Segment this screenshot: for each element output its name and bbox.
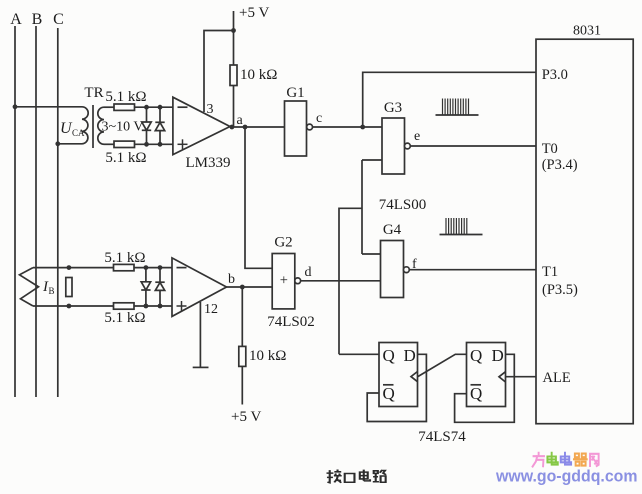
svg-text:d: d — [305, 265, 312, 280]
wire f: G4 output to T1 — [409, 257, 536, 272]
wire ALE to FF2 clock — [506, 376, 537, 378]
svg-text:10 kΩ: 10 kΩ — [240, 67, 277, 83]
label U_CA — [60, 120, 85, 138]
wire R7 to +5V — [241, 366, 243, 404]
svg-text:LM339: LM339 — [186, 155, 231, 171]
svg-text:10 kΩ: 10 kΩ — [249, 348, 286, 364]
gate G1 — [285, 85, 313, 156]
phase line A — [10, 11, 22, 397]
svg-text:CA: CA — [72, 128, 85, 138]
wire c: G1 output to junction — [313, 111, 366, 129]
gate G2 — [272, 235, 300, 309]
svg-text:5.1 kΩ: 5.1 kΩ — [104, 310, 145, 326]
wire node a down to G2 input — [245, 127, 272, 268]
svg-text:B: B — [49, 286, 55, 296]
wire node b to G2 — [227, 286, 273, 288]
svg-text:G4: G4 — [383, 222, 402, 238]
ground — [193, 366, 209, 368]
wire C to TR primary bottom — [58, 143, 82, 145]
wire R2 to comparator plus input — [135, 143, 173, 145]
svg-text:Q: Q — [383, 384, 395, 403]
svg-text:G3: G3 — [384, 100, 402, 116]
junction dots upper clamp rails — [144, 105, 162, 147]
svg-text:P3.0: P3.0 — [542, 67, 568, 83]
wire FF1 Q output up to gating branch — [339, 353, 379, 355]
diode D3 (cathode down) — [141, 268, 150, 306]
diode D2 (cathode up) — [155, 107, 164, 144]
wire FF2 Qbar to D feedback loop — [455, 354, 515, 422]
svg-text:TR: TR — [84, 85, 103, 101]
pin 3 wire (U1 power) — [204, 31, 234, 118]
svg-text:3~10 V: 3~10 V — [102, 120, 144, 135]
svg-text:T0: T0 — [542, 141, 558, 157]
phase line C — [53, 11, 64, 397]
diode D4 (cathode up) — [155, 268, 164, 306]
svg-text:74LS74: 74LS74 — [418, 429, 466, 445]
pulse train icon near G4 — [440, 218, 483, 235]
svg-text:(P3.5): (P3.5) — [542, 282, 578, 298]
pin 12 wire (U2 ground) — [200, 302, 218, 367]
svg-text:3: 3 — [207, 102, 214, 117]
svg-text:Q: Q — [470, 346, 482, 365]
svg-text:c: c — [316, 111, 322, 126]
wire R3 to node a — [233, 86, 235, 128]
wire lower channel bottom rail — [33, 305, 172, 307]
wire branch to FF1 Q — [339, 208, 362, 354]
svg-text:e: e — [414, 129, 420, 144]
transformer TR primary winding — [82, 107, 88, 144]
svg-text:D: D — [492, 346, 504, 365]
wire G4 upper input — [362, 253, 381, 255]
resistor R3 10 kOhm pull-up — [230, 65, 277, 86]
svg-text:8031: 8031 — [573, 24, 601, 39]
svg-text:+: + — [280, 273, 288, 289]
node b — [228, 272, 245, 289]
burden resistor R4 — [66, 265, 72, 308]
wire G3-G4 gating vertical — [361, 160, 363, 254]
svg-text:T1: T1 — [542, 264, 558, 280]
transformer core — [92, 105, 94, 148]
svg-text:D: D — [404, 346, 416, 365]
wire G3 lower input — [362, 159, 382, 161]
flip-flop FF2 (74LS74) — [467, 343, 506, 407]
wire FF2 Q to FF1 clock (diagonal) — [418, 354, 467, 376]
junction dots lower clamp rails — [144, 265, 163, 308]
caption 接口电路 — [327, 470, 387, 483]
svg-text:5.1 kΩ: 5.1 kΩ — [104, 250, 145, 266]
diode D1 (cathode down) — [142, 107, 151, 144]
resistor R2 5.1 kOhm (upper channel, bottom) — [105, 141, 146, 166]
svg-text:5.1 kΩ: 5.1 kΩ — [105, 89, 146, 105]
watermark 广电电器网 — [533, 453, 599, 467]
wire node c to P3.0 — [363, 72, 536, 127]
wire FF1 Qbar to D feedback loop — [367, 354, 426, 421]
svg-text:C: C — [53, 11, 64, 28]
svg-text:(P3.4): (P3.4) — [542, 157, 578, 173]
svg-text:a: a — [237, 113, 244, 128]
wire node b down to R7 — [241, 287, 243, 346]
IC 8031 — [536, 24, 633, 424]
wire node a to G1 — [230, 126, 285, 128]
svg-text:12: 12 — [204, 302, 218, 317]
svg-text:74LS00: 74LS00 — [379, 197, 427, 213]
wire R1 to comparator minus input — [135, 106, 173, 108]
svg-text:Q: Q — [470, 384, 482, 403]
svg-text:b: b — [228, 272, 235, 287]
svg-text:+5 V: +5 V — [239, 5, 269, 21]
op-amp U2 LM339 (lower comparator) — [172, 258, 227, 317]
svg-text:G2: G2 — [274, 235, 292, 251]
resistor R6 5.1 kOhm (lower channel, bottom) — [104, 303, 145, 326]
resistor R1 5.1 kOhm (upper channel, top) — [105, 89, 146, 110]
gate G3 — [382, 100, 410, 174]
op-amp U1 LM339 (upper comparator) — [173, 97, 231, 171]
resistor R7 10 kOhm pull-up — [239, 346, 287, 366]
wire secondary bottom to R2 — [104, 143, 114, 145]
wire d: G2 output to G4 lower input — [301, 265, 381, 281]
svg-text:f: f — [412, 257, 417, 272]
resistor R5 5.1 kOhm (lower channel, top) — [104, 250, 145, 271]
wire lower channel top rail — [33, 267, 172, 269]
svg-text:A: A — [10, 11, 22, 28]
wire e: G3 output to T0 — [410, 129, 536, 146]
wire A to TR primary top — [15, 106, 82, 108]
wire secondary top to R1 — [104, 106, 114, 108]
svg-text:5.1 kΩ: 5.1 kΩ — [105, 150, 146, 166]
node a — [230, 113, 248, 129]
svg-text:B: B — [32, 11, 43, 28]
svg-text:G1: G1 — [286, 85, 304, 101]
current pickup I_B zigzag — [20, 268, 55, 306]
+5 V supply (top) — [231, 5, 269, 65]
gate G4 — [381, 222, 410, 298]
phase line B — [32, 11, 43, 397]
wire node c to G3 input — [363, 126, 382, 128]
svg-text:Q: Q — [383, 346, 395, 365]
svg-text:www.go-gddq.com: www.go-gddq.com — [495, 468, 637, 486]
pulse train icon near G3 — [436, 99, 479, 116]
transformer secondary winding — [98, 107, 104, 144]
junction dot C-primary — [55, 141, 60, 146]
svg-text:+5 V: +5 V — [231, 409, 261, 425]
junction dot A-primary — [13, 104, 18, 109]
svg-text:74LS02: 74LS02 — [267, 314, 315, 330]
flip-flop FF1 (74LS74) — [379, 343, 418, 407]
svg-text:ALE: ALE — [543, 370, 571, 386]
